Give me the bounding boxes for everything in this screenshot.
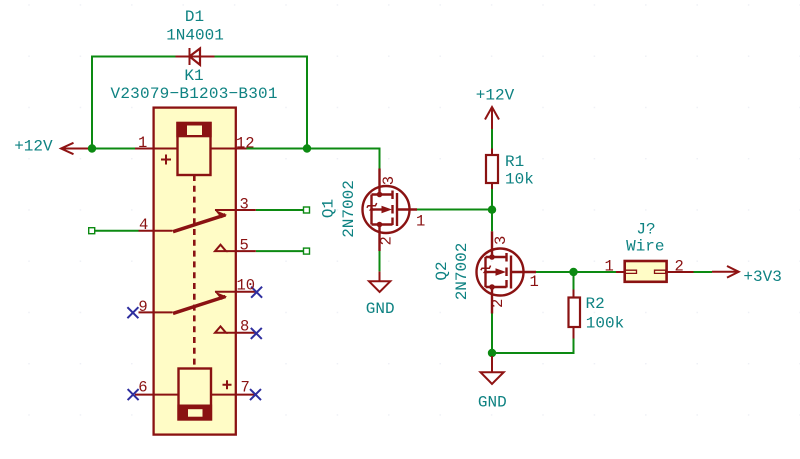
svg-text:K1: K1 xyxy=(184,67,203,85)
svg-text:100k: 100k xyxy=(586,314,624,332)
svg-text:3: 3 xyxy=(240,196,249,214)
svg-text:1: 1 xyxy=(416,213,425,231)
svg-text:Q1: Q1 xyxy=(320,199,338,218)
svg-text:+12V: +12V xyxy=(14,138,53,156)
svg-text:2N7002: 2N7002 xyxy=(340,180,358,238)
svg-text:2: 2 xyxy=(489,299,507,308)
svg-text:GND: GND xyxy=(478,394,507,412)
svg-text:Q2: Q2 xyxy=(433,261,451,280)
svg-text:2: 2 xyxy=(675,258,684,276)
svg-text:+12V: +12V xyxy=(476,87,515,105)
svg-text:2: 2 xyxy=(378,236,396,245)
svg-text:2N7002: 2N7002 xyxy=(453,243,471,301)
svg-text:R1: R1 xyxy=(505,153,524,171)
svg-text:D1: D1 xyxy=(185,8,204,26)
svg-text:12: 12 xyxy=(236,135,255,153)
svg-text:8: 8 xyxy=(240,318,249,336)
svg-text:3: 3 xyxy=(380,176,398,185)
svg-text:V23079−B1203−B301: V23079−B1203−B301 xyxy=(111,85,278,103)
svg-text:+3V3: +3V3 xyxy=(743,268,781,286)
svg-text:5: 5 xyxy=(240,237,249,255)
svg-text:1: 1 xyxy=(138,134,147,152)
svg-text:1N4001: 1N4001 xyxy=(166,26,224,44)
svg-text:3: 3 xyxy=(492,236,510,245)
svg-text:R2: R2 xyxy=(586,295,605,313)
svg-text:GND: GND xyxy=(366,300,395,318)
svg-text:9: 9 xyxy=(138,298,147,316)
svg-text:6: 6 xyxy=(138,378,147,396)
svg-text:7: 7 xyxy=(241,378,250,396)
svg-text:J?: J? xyxy=(636,221,655,239)
svg-text:1: 1 xyxy=(605,258,614,276)
svg-text:1: 1 xyxy=(530,273,539,291)
svg-text:4: 4 xyxy=(139,216,148,234)
svg-text:Wire: Wire xyxy=(626,237,664,255)
svg-text:10: 10 xyxy=(237,277,256,295)
svg-text:10k: 10k xyxy=(505,171,534,189)
